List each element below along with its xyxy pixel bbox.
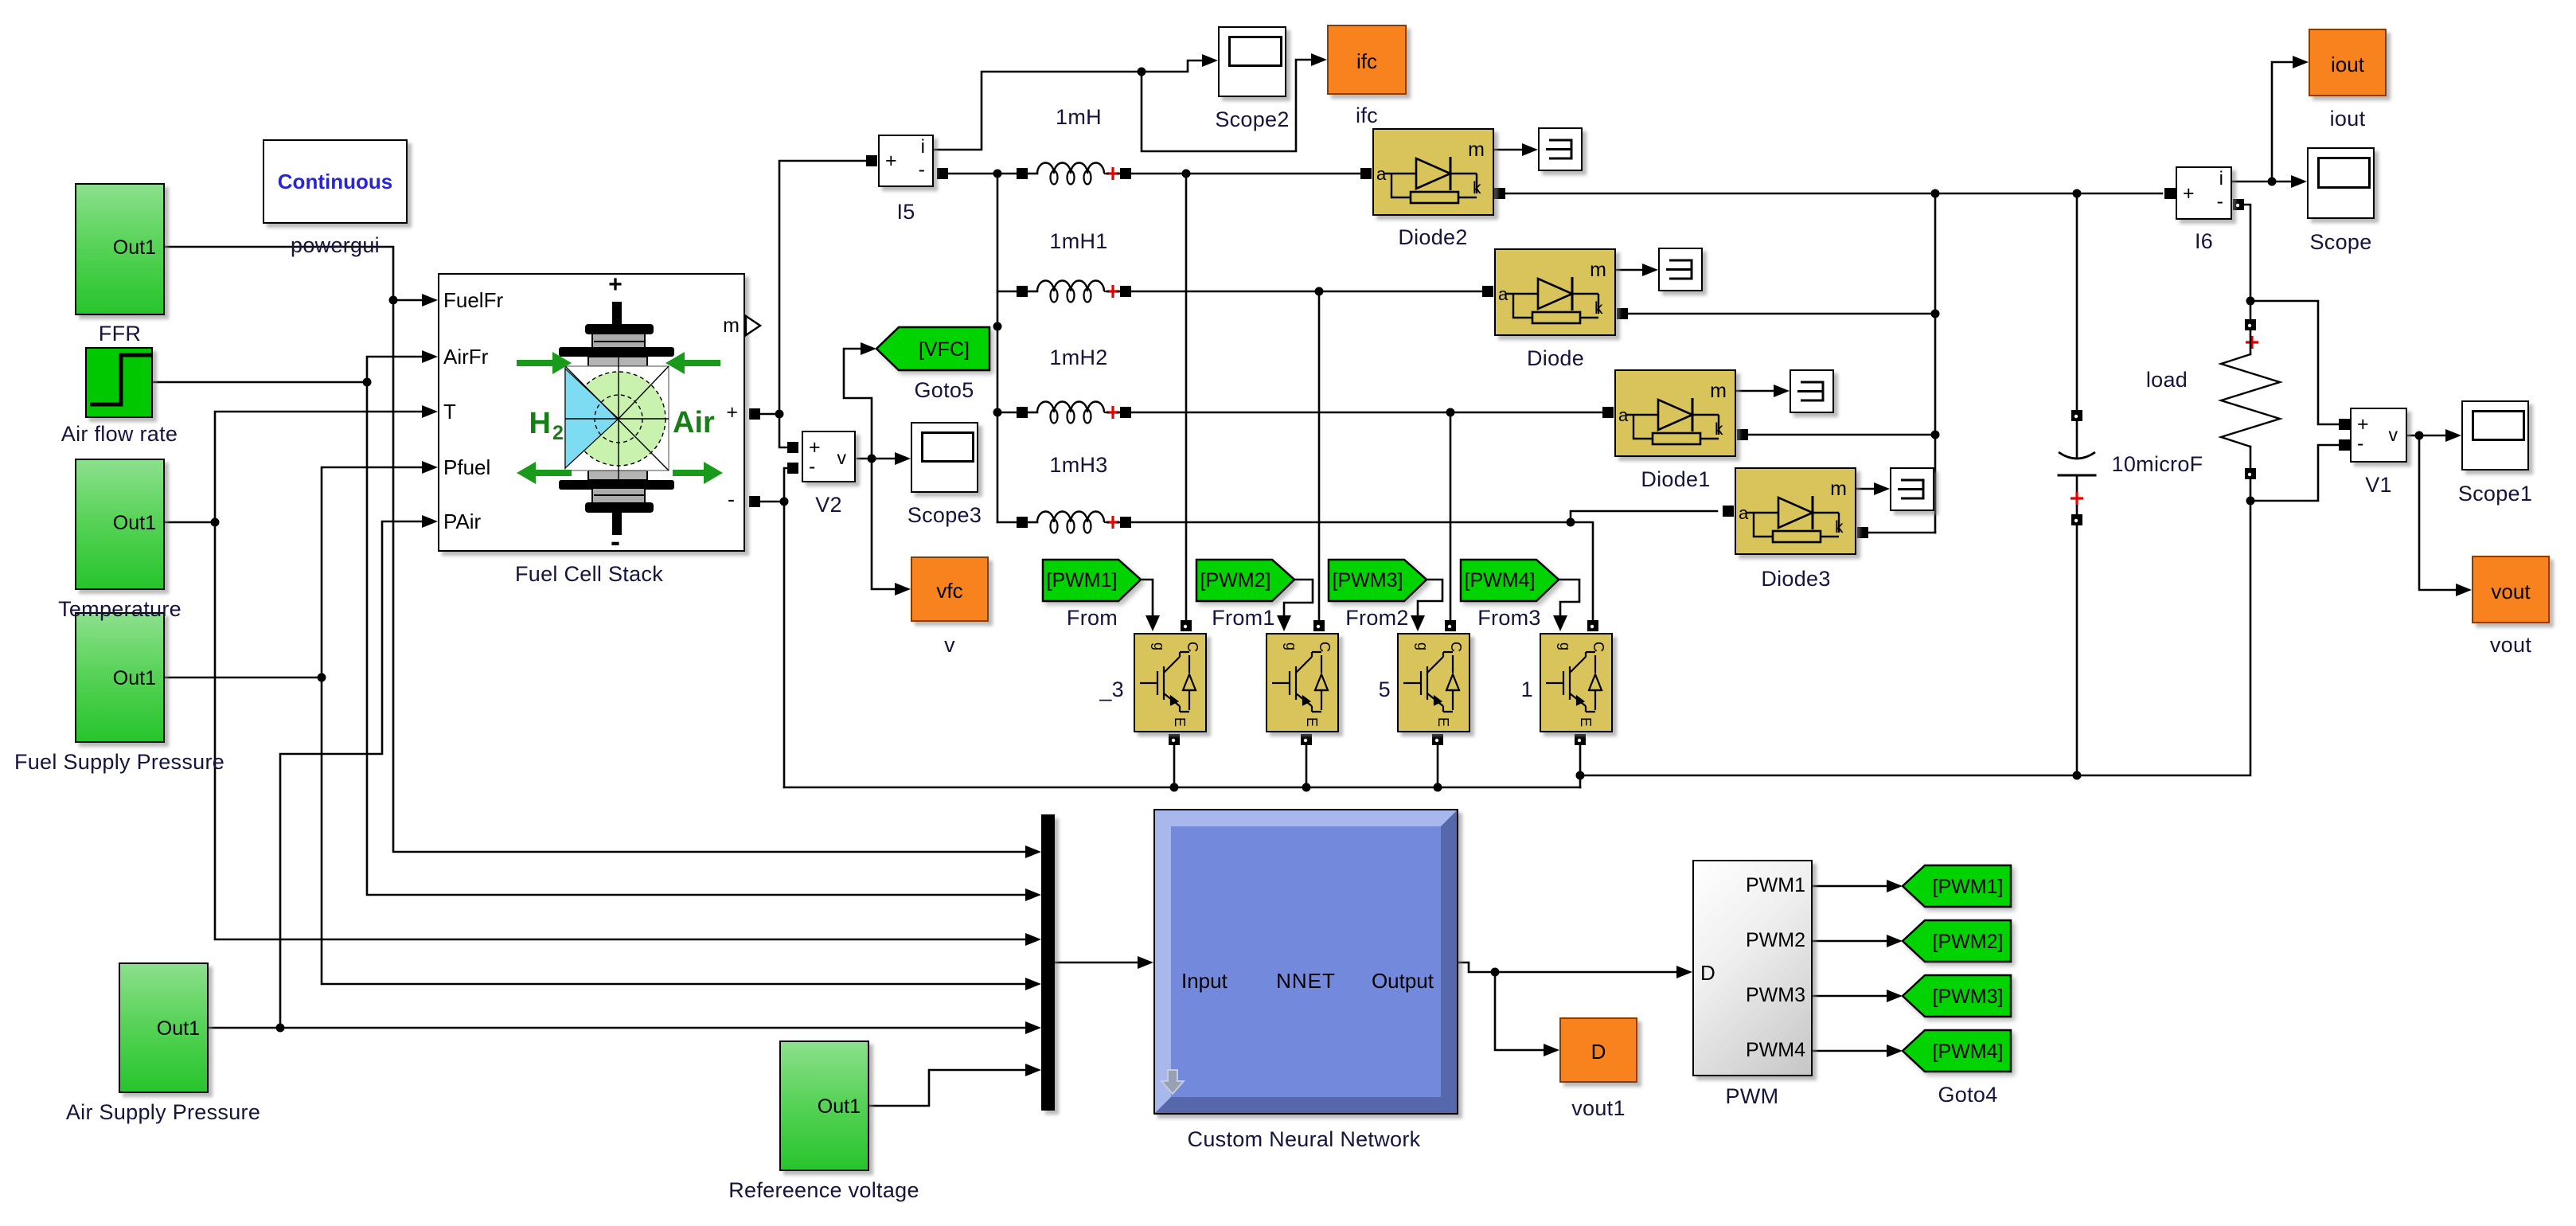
IGBT block 1 — [1540, 633, 1613, 732]
value label 1mH — [1056, 106, 1102, 130]
IGBT block 5 — [1397, 633, 1470, 732]
svg-text:k: k — [1835, 518, 1844, 537]
goto tag vout — [2472, 556, 2550, 623]
wire net: V2 v output to Scope3, Goto5 and vfc — [844, 342, 911, 595]
wire net: bus from 1mH1/2/3 rows (vertical) — [997, 291, 1017, 522]
wire net: I5 i output to Scope2 and ifc — [934, 53, 1327, 151]
svg-text:2: 2 — [552, 422, 564, 444]
svg-text:[PWM1]: [PWM1] — [1933, 876, 2004, 898]
scope Scope1 — [2461, 400, 2529, 470]
svg-text:-: - — [728, 487, 735, 511]
wire net: 1mH to diode anode and IGBT collector — [1131, 168, 1372, 631]
diode block Diode — [1494, 248, 1616, 336]
value label 10microF — [2112, 453, 2203, 477]
subsystem Temperature source — [75, 459, 165, 590]
svg-text:C: C — [1448, 642, 1464, 652]
wire net: 1mH2 to diode anode and IGBT collector — [1131, 407, 1614, 631]
goto tag vout1 (D) — [1559, 1017, 1637, 1083]
wire net: Fuel Cell - terminal to V2 - and bottom emitter bus — [749, 463, 798, 787]
svg-text:[PWM4]: [PWM4] — [1465, 569, 1536, 592]
svg-text:k: k — [1473, 179, 1481, 197]
capacitor 10microF — [2059, 193, 2095, 775]
svg-text:H: H — [529, 407, 551, 440]
svg-text:PAir: PAir — [443, 510, 482, 533]
value label 1mH1 — [1049, 230, 1107, 254]
value label 1mH2 — [1049, 346, 1107, 370]
IGBT block (unlabeled) — [1266, 633, 1339, 732]
svg-text:[PWM1]: [PWM1] — [1047, 569, 1118, 592]
wire: PWM output PWM4 to Goto tag — [1813, 1044, 1903, 1057]
svg-text:C: C — [1590, 642, 1606, 652]
voltage measurement V2 — [802, 431, 856, 482]
goto tags Goto4 [PWM1..4] — [1899, 862, 2015, 913]
wire net: Fuel Cell + terminal to I5 + and V2 + — [749, 155, 877, 453]
wire net: Diode1 k to DC bus — [1737, 429, 1940, 440]
wire net: Air Supply Pressure Out1 to PAir port and Mux input 5 — [209, 515, 1041, 1034]
wire net: NNET Output to PWM D and vout1 — [1458, 962, 1692, 1056]
subsystem PWM — [1692, 860, 1813, 1076]
resistor load — [2221, 297, 2280, 506]
svg-text:FuelFr: FuelFr — [443, 288, 503, 312]
svg-text:[PWM4]: [PWM4] — [1933, 1041, 2004, 1063]
svg-text:E: E — [1578, 717, 1594, 727]
svg-text:m: m — [723, 314, 740, 337]
inductor 1mH2 — [1017, 401, 1131, 423]
wire net: bottom emitter bus — [784, 501, 2250, 792]
powergui block (Continuous) — [263, 139, 408, 224]
svg-text:[PWM3]: [PWM3] — [1933, 986, 2004, 1008]
terminator for Diode1 m — [1790, 369, 1834, 413]
goto tag Goto5 [VFC] — [872, 322, 999, 386]
scope Scope2 — [1218, 26, 1286, 97]
svg-text:a: a — [1739, 503, 1749, 523]
subsystem Fuel Cell Stack — [438, 273, 745, 552]
terminator for Diode m — [1658, 248, 1703, 291]
wire: From3 PWM4 tag to IGBT 1 gate — [1553, 580, 1579, 631]
wire net: V1 v output to Scope1 and vout — [2407, 429, 2472, 596]
svg-text:[VFC]: [VFC] — [919, 338, 970, 361]
inductor 1mH1 — [1017, 281, 1131, 303]
wire net: Diode3 k to DC bus — [1857, 193, 1935, 538]
diode block Diode1 — [1614, 369, 1736, 457]
wire: Mux output to NNET Input — [1055, 956, 1153, 969]
wire net: I6 - to load top and V1 + — [2233, 199, 2350, 430]
value label load — [2146, 369, 2188, 392]
svg-text:m: m — [1710, 380, 1727, 402]
wire: PWM output PWM3 to Goto tag — [1813, 990, 1903, 1002]
svg-text:a: a — [1618, 405, 1629, 425]
wire net: Reference voltage Out1 to Mux input 6 — [869, 1064, 1041, 1106]
svg-text:E: E — [1435, 717, 1451, 727]
wire: Diode1 m output to terminator — [1737, 385, 1790, 397]
wire: From PWM1 tag to IGBT _3 gate — [1141, 580, 1160, 631]
svg-text:[PWM3]: [PWM3] — [1333, 569, 1403, 592]
wire: PWM output PWM2 to Goto tag — [1813, 935, 1903, 947]
svg-text:AirFr: AirFr — [443, 345, 489, 369]
scope Scope3 — [911, 422, 978, 493]
svg-text:Air: Air — [673, 406, 715, 439]
goto tag vfc — [911, 556, 989, 622]
goto tag iout — [2309, 29, 2387, 96]
diode block Diode3 — [1735, 467, 1856, 555]
IGBT block _3 — [1134, 633, 1207, 732]
wire: Diode m output to terminator — [1617, 264, 1658, 276]
wire: From2 PWM3 tag to IGBT 5 gate — [1411, 580, 1442, 631]
subsystem FFR (fuel flow rate source) — [75, 183, 165, 315]
subsystem Reference voltage source — [779, 1041, 869, 1171]
wire net: Diode2 k to top DC bus, capacitor and I6 + — [1494, 188, 2176, 199]
mux block — [1041, 814, 1055, 1111]
inductor 1mH — [1017, 163, 1131, 185]
current measurement I6 — [2176, 166, 2232, 220]
svg-text:C: C — [1185, 642, 1200, 652]
svg-text:a: a — [1498, 284, 1509, 304]
wire net: Diode k to DC bus — [1617, 308, 1940, 319]
svg-text:+: + — [726, 401, 738, 424]
svg-text:E: E — [1304, 717, 1320, 727]
subsystem Air flow rate (step source) — [85, 347, 153, 418]
wire net: Air flow rate to AirFr port and Mux input 2 — [153, 350, 1041, 901]
subsystem Air Supply Pressure source — [119, 962, 209, 1093]
current measurement I5 — [878, 135, 934, 187]
wire net: I5 - output to inductor bus — [937, 168, 1017, 522]
wire: From1 PWM2 tag to IGBT gate — [1277, 580, 1313, 631]
from tag PWM1|From — [1040, 554, 1148, 607]
svg-text:C: C — [1317, 642, 1333, 652]
goto tag ifc — [1327, 25, 1407, 95]
from tag PWM3|From2 — [1326, 554, 1434, 607]
svg-text:m: m — [1468, 139, 1485, 161]
scope Scope — [2307, 147, 2375, 219]
terminator for Diode3 m — [1890, 467, 1934, 511]
wire: Diode3 m output to terminator — [1857, 482, 1890, 495]
svg-text:T: T — [443, 400, 456, 424]
svg-text:a: a — [1376, 164, 1387, 184]
wire net: Fuel Supply Pressure Out1 to Pfuel port and Mux input 4 — [165, 461, 1041, 990]
svg-text:m: m — [1830, 478, 1847, 500]
wire net: load bottom to V1 - — [2250, 439, 2350, 501]
terminator for Diode2 m — [1538, 127, 1583, 171]
svg-text:k: k — [1594, 299, 1603, 318]
subsystem Fuel Supply Pressure source — [75, 612, 165, 743]
wire net: FFR Out1 to FuelFr port and Mux input 1 — [165, 247, 1041, 858]
from tag PWM4|From3 — [1458, 554, 1566, 607]
from tag PWM2|From1 — [1194, 554, 1302, 607]
svg-text:g: g — [1283, 642, 1299, 650]
inductor 1mH3 — [1017, 512, 1131, 533]
subsystem Custom Neural Network (NNET) — [1153, 809, 1458, 1115]
voltage measurement V1 — [2350, 408, 2407, 463]
svg-text:g: g — [1151, 642, 1167, 650]
svg-text:m: m — [1590, 259, 1606, 281]
svg-text:k: k — [1715, 420, 1723, 439]
svg-text:E: E — [1172, 717, 1188, 727]
svg-text:Pfuel: Pfuel — [443, 455, 490, 479]
diode block Diode2 — [1372, 128, 1494, 216]
wire: PWM output PWM1 to Goto tag — [1813, 880, 1903, 892]
svg-text:[PWM2]: [PWM2] — [1933, 931, 2004, 953]
svg-text:g: g — [1415, 642, 1430, 650]
wire net: Temperature Out1 to T port and Mux input 3 — [165, 405, 1041, 946]
wire net: 1mH1 to diode anode and IGBT collector — [1131, 286, 1493, 631]
wire net: 1mH3 to diode anode and IGBT collector — [1131, 506, 1734, 631]
svg-text:g: g — [1557, 642, 1573, 650]
svg-text:+: + — [608, 271, 623, 298]
wire: Diode2 m output to terminator — [1494, 143, 1538, 156]
svg-text:[PWM2]: [PWM2] — [1200, 569, 1271, 592]
wire net: I6 i output to Scope and iout — [2232, 56, 2309, 188]
value label 1mH3 — [1049, 454, 1107, 478]
